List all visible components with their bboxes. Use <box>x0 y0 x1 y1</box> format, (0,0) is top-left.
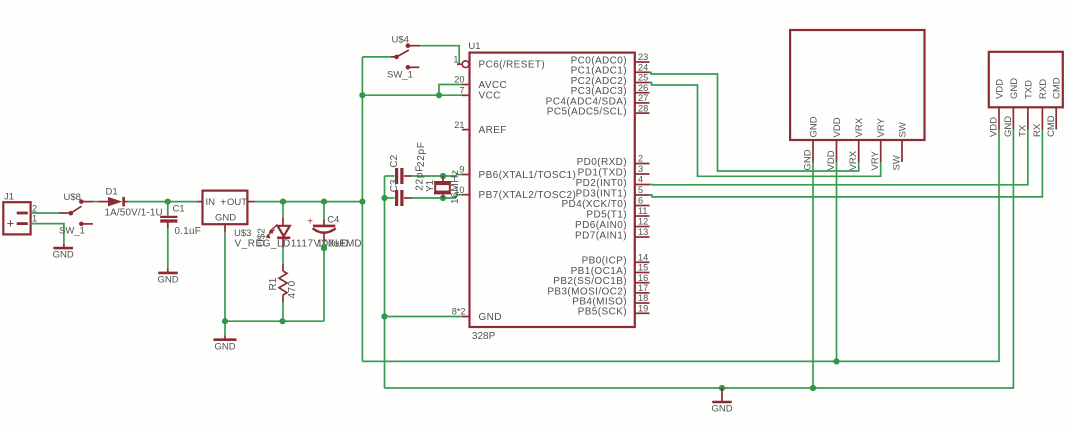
svg-text:11: 11 <box>638 206 648 216</box>
svg-text:C2: C2 <box>389 154 400 167</box>
svg-text:U$4: U$4 <box>392 35 409 46</box>
svg-text:+: + <box>307 217 313 228</box>
svg-text:PD3(INT1): PD3(INT1) <box>576 188 627 199</box>
svg-text:5: 5 <box>638 185 643 195</box>
svg-text:R1: R1 <box>268 277 279 290</box>
svg-text:PD6(AIN0): PD6(AIN0) <box>575 220 627 231</box>
svg-text:3: 3 <box>638 164 643 174</box>
svg-text:GND: GND <box>808 116 819 137</box>
svg-text:12: 12 <box>638 217 648 227</box>
svg-text:14: 14 <box>638 253 648 263</box>
svg-text:GND: GND <box>479 312 502 323</box>
svg-text:VRY: VRY <box>876 117 887 137</box>
svg-text:VRX: VRX <box>854 117 865 137</box>
svg-text:U$2: U$2 <box>256 228 267 247</box>
svg-text:U$3: U$3 <box>234 228 251 239</box>
svg-text:13: 13 <box>638 227 648 237</box>
svg-text:2: 2 <box>32 204 37 214</box>
svg-text:C1: C1 <box>173 203 185 214</box>
svg-text:25: 25 <box>638 73 648 83</box>
svg-text:20: 20 <box>454 75 464 85</box>
svg-text:GND: GND <box>157 275 178 286</box>
svg-text:GND: GND <box>214 341 235 352</box>
svg-text:RX: RX <box>1032 123 1043 137</box>
svg-text:4: 4 <box>638 175 643 185</box>
svg-text:17: 17 <box>638 283 648 293</box>
svg-text:SW: SW <box>891 155 902 170</box>
svg-text:GND: GND <box>1003 116 1014 137</box>
svg-text:PD1(TXD): PD1(TXD) <box>578 167 627 178</box>
svg-text:AVCC: AVCC <box>479 80 508 91</box>
svg-text:6: 6 <box>638 196 643 206</box>
svg-text:PB5(SCK): PB5(SCK) <box>578 307 627 318</box>
svg-text:VCC: VCC <box>479 91 501 102</box>
svg-text:VRX: VRX <box>848 150 859 170</box>
svg-text:1: 1 <box>32 214 37 224</box>
svg-text:7: 7 <box>459 86 464 96</box>
svg-text:1: 1 <box>453 54 458 64</box>
svg-text:CMD: CMD <box>1052 77 1063 99</box>
svg-text:PD0(RXD): PD0(RXD) <box>577 157 627 168</box>
svg-text:10: 10 <box>454 185 464 195</box>
svg-text:328P: 328P <box>472 331 496 342</box>
svg-text:18: 18 <box>638 293 648 303</box>
svg-text:PC6(/RESET): PC6(/RESET) <box>479 60 546 71</box>
svg-text:24: 24 <box>638 63 648 73</box>
svg-text:0.1uF: 0.1uF <box>175 226 202 237</box>
svg-text:28: 28 <box>638 103 648 113</box>
svg-text:19: 19 <box>638 304 648 314</box>
svg-text:22pF: 22pF <box>414 165 425 191</box>
svg-text:1A/50V/1-1U: 1A/50V/1-1U <box>105 207 163 218</box>
svg-text:SW: SW <box>897 122 908 137</box>
svg-text:+: + <box>220 198 226 209</box>
svg-text:22pF: 22pF <box>416 141 427 167</box>
svg-text:15: 15 <box>638 263 648 273</box>
svg-text:470: 470 <box>287 280 298 298</box>
svg-text:VRY: VRY <box>870 150 881 170</box>
svg-text:21: 21 <box>454 120 464 130</box>
svg-text:D1: D1 <box>106 187 118 198</box>
svg-text:2: 2 <box>638 154 643 164</box>
svg-text:16: 16 <box>638 273 648 283</box>
svg-text:PD7(AIN1): PD7(AIN1) <box>575 230 627 241</box>
svg-text:J1: J1 <box>4 192 14 203</box>
svg-text:GND: GND <box>1009 78 1020 99</box>
svg-text:PD4(XCK/T0): PD4(XCK/T0) <box>561 199 627 210</box>
svg-text:U$8: U$8 <box>64 192 81 203</box>
svg-text:VDD: VDD <box>826 150 837 170</box>
svg-text:27: 27 <box>638 93 648 103</box>
svg-text:TXD: TXD <box>1023 80 1034 99</box>
svg-text:PD5(T1): PD5(T1) <box>586 209 627 220</box>
svg-text:+: + <box>7 216 15 231</box>
svg-text:VDD: VDD <box>832 117 843 137</box>
svg-text:RXD: RXD <box>1038 79 1049 99</box>
svg-text:VDD: VDD <box>994 79 1005 99</box>
svg-text:PC5(ADC5/SCL): PC5(ADC5/SCL) <box>547 107 627 118</box>
svg-text:-EMD: -EMD <box>336 239 362 250</box>
svg-text:26: 26 <box>638 83 648 93</box>
svg-text:U1: U1 <box>468 41 480 52</box>
svg-text:TX: TX <box>1018 124 1029 137</box>
svg-text:OUT: OUT <box>227 197 247 208</box>
svg-text:AREF: AREF <box>479 125 507 136</box>
svg-text:C4: C4 <box>327 215 339 226</box>
svg-text:GND: GND <box>215 212 236 223</box>
svg-text:GND: GND <box>53 250 74 261</box>
svg-text:8*2: 8*2 <box>452 307 466 317</box>
svg-text:SW_1: SW_1 <box>59 226 85 237</box>
svg-text:Y1: Y1 <box>425 179 436 192</box>
svg-text:PB6(XTAL1/TOSC1): PB6(XTAL1/TOSC1) <box>479 170 577 181</box>
svg-text:23: 23 <box>638 52 648 62</box>
svg-text:GND: GND <box>711 404 732 415</box>
svg-text:GND: GND <box>802 149 813 170</box>
svg-text:CMD: CMD <box>1046 115 1057 137</box>
svg-text:9: 9 <box>459 165 464 175</box>
svg-text:C3: C3 <box>389 179 400 192</box>
svg-text:IN: IN <box>206 197 216 208</box>
svg-text:PD2(INT0): PD2(INT0) <box>576 178 627 189</box>
svg-text:SW_1: SW_1 <box>387 70 413 81</box>
svg-text:VDD: VDD <box>989 117 1000 137</box>
